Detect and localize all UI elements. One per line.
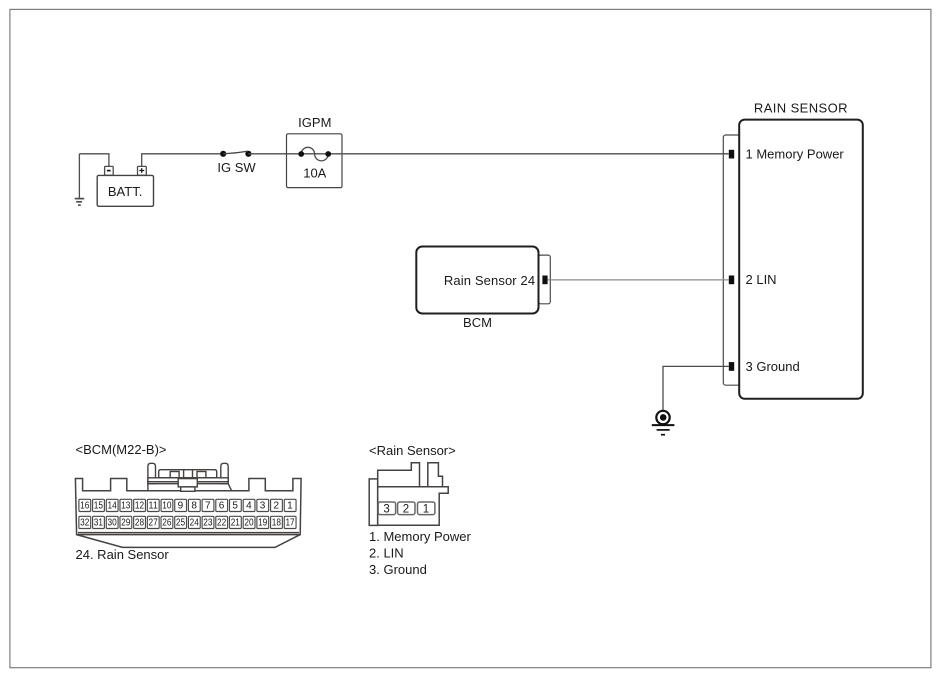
svg-text:2: 2 xyxy=(403,503,409,515)
BCM connector centre latch xyxy=(148,463,232,491)
wire BCM to rain sensor pin 2 (LIN) xyxy=(547,279,728,281)
svg-text:7: 7 xyxy=(205,501,211,512)
svg-text:IG SW: IG SW xyxy=(217,160,256,175)
svg-text:20: 20 xyxy=(244,518,254,529)
svg-text:32: 32 xyxy=(80,518,90,529)
BCM bracket xyxy=(539,255,551,304)
svg-text:BATT.: BATT. xyxy=(108,184,142,199)
pin 3 xyxy=(729,362,734,371)
svg-text:11: 11 xyxy=(149,501,159,512)
svg-text:1. Memory Power: 1. Memory Power xyxy=(369,529,472,544)
svg-text:10A: 10A xyxy=(303,166,326,181)
svg-text:16: 16 xyxy=(80,501,90,512)
svg-text:RAIN SENSOR: RAIN SENSOR xyxy=(754,101,848,116)
wire IG SW to IGPM xyxy=(248,153,286,155)
svg-text:19: 19 xyxy=(258,518,268,529)
svg-text:17: 17 xyxy=(285,518,295,529)
svg-text:30: 30 xyxy=(107,518,117,529)
svg-text:3: 3 xyxy=(260,501,266,512)
svg-text:BCM: BCM xyxy=(463,315,492,330)
svg-text:2 LIN: 2 LIN xyxy=(746,272,777,287)
svg-text:4: 4 xyxy=(246,501,252,512)
svg-text:10: 10 xyxy=(162,501,172,512)
chassis ground symbol xyxy=(652,411,675,435)
svg-text:28: 28 xyxy=(135,518,145,529)
svg-text:IGPM: IGPM xyxy=(298,115,331,130)
svg-text:24: 24 xyxy=(190,518,200,529)
rain sensor connector housing xyxy=(369,463,448,526)
svg-text:6: 6 xyxy=(219,501,225,512)
svg-text:3. Ground: 3. Ground xyxy=(369,562,427,577)
svg-text:18: 18 xyxy=(272,518,282,529)
svg-text:12: 12 xyxy=(135,501,145,512)
svg-text:26: 26 xyxy=(162,518,172,529)
wire rain sensor pin 3 to chassis ground xyxy=(663,366,729,410)
switch IG SW xyxy=(217,151,256,175)
ground (battery negative) xyxy=(75,154,85,205)
rain sensor connector pins 3 2 1 xyxy=(378,502,435,515)
wire battery negative to ground xyxy=(79,154,109,167)
svg-text:3: 3 xyxy=(383,503,389,515)
svg-text:27: 27 xyxy=(149,518,159,529)
svg-text:1: 1 xyxy=(423,503,429,515)
svg-text:24. Rain Sensor: 24. Rain Sensor xyxy=(76,547,170,562)
svg-text:9: 9 xyxy=(178,501,184,512)
svg-text:15: 15 xyxy=(94,501,104,512)
BCM connector pin grid xyxy=(79,499,296,528)
svg-text:Rain Sensor 24: Rain Sensor 24 xyxy=(444,273,535,288)
svg-text:31: 31 xyxy=(94,518,104,529)
svg-text:5: 5 xyxy=(232,501,238,512)
svg-text:21: 21 xyxy=(231,518,241,529)
svg-text:3 Ground: 3 Ground xyxy=(746,359,800,374)
svg-text:8: 8 xyxy=(191,501,197,512)
wire battery positive to IG SW xyxy=(142,154,223,167)
svg-text:25: 25 xyxy=(176,518,186,529)
svg-text:29: 29 xyxy=(121,518,131,529)
svg-text:22: 22 xyxy=(217,518,227,529)
connector bracket at rain sensor xyxy=(723,135,740,385)
svg-text:23: 23 xyxy=(203,518,213,529)
svg-text:<Rain Sensor>: <Rain Sensor> xyxy=(369,443,456,458)
svg-text:2. LIN: 2. LIN xyxy=(369,545,404,560)
pin 1 xyxy=(729,150,734,159)
svg-text:2: 2 xyxy=(273,501,279,512)
svg-text:14: 14 xyxy=(107,501,117,512)
battery BATT. xyxy=(97,166,153,206)
svg-text:<BCM(M22-B)>: <BCM(M22-B)> xyxy=(76,442,167,457)
BCM pin 24 xyxy=(542,276,547,285)
svg-text:1 Memory Power: 1 Memory Power xyxy=(746,147,845,162)
svg-text:1: 1 xyxy=(287,501,293,512)
pin 2 xyxy=(729,276,734,285)
BCM connector housing outline xyxy=(75,479,301,548)
wire IGPM to rain sensor pin 1 xyxy=(343,153,729,155)
svg-text:13: 13 xyxy=(121,501,131,512)
rain sensor box xyxy=(739,101,863,399)
fuse box IGPM 10A xyxy=(287,115,343,188)
BCM box xyxy=(416,247,538,330)
